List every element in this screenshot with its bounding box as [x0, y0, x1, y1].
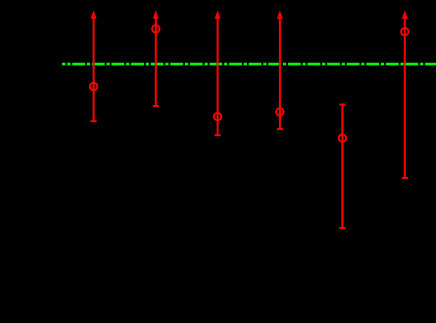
errorbar point 5: open circle marker: [339, 134, 347, 142]
errorbar point 3: upper-limit arrowhead: [215, 10, 221, 19]
errorbar point 2: open circle marker: [152, 25, 160, 33]
errorbar point 3: bottom cap: [215, 134, 221, 136]
errorbar point 5: bottom cap: [339, 227, 345, 229]
errorbar point 3: vertical bar: [217, 17, 219, 136]
errorbar point 4: bottom cap: [277, 128, 283, 130]
errorbar point 1: vertical bar: [93, 17, 95, 122]
errorbar point 2: upper-limit arrowhead: [153, 10, 159, 19]
errorbar point 5: vertical bar: [341, 105, 343, 229]
errorbar point 6: vertical bar: [404, 17, 406, 179]
errorbar point 1: upper-limit arrowhead: [91, 10, 97, 19]
errorbar point 2: vertical bar: [155, 17, 157, 107]
errorbar point 6: open circle marker: [401, 28, 409, 36]
errorbar point 5: top cap: [339, 104, 345, 106]
errorbar point 2: bottom cap: [153, 105, 159, 107]
errorbar point 4: vertical bar: [279, 17, 281, 130]
errorbar point 4: open circle marker: [276, 108, 284, 116]
errorbar point 6: upper-limit arrowhead: [402, 10, 408, 19]
errorbar point 4: upper-limit arrowhead: [277, 10, 283, 19]
errorbar point 6: bottom cap: [402, 177, 408, 179]
errorbar point 1: bottom cap: [91, 120, 97, 122]
green dashed reference line: [62, 63, 436, 66]
errorbar point 3: open circle marker: [214, 113, 222, 121]
errorbar point 1: open circle marker: [90, 83, 98, 91]
